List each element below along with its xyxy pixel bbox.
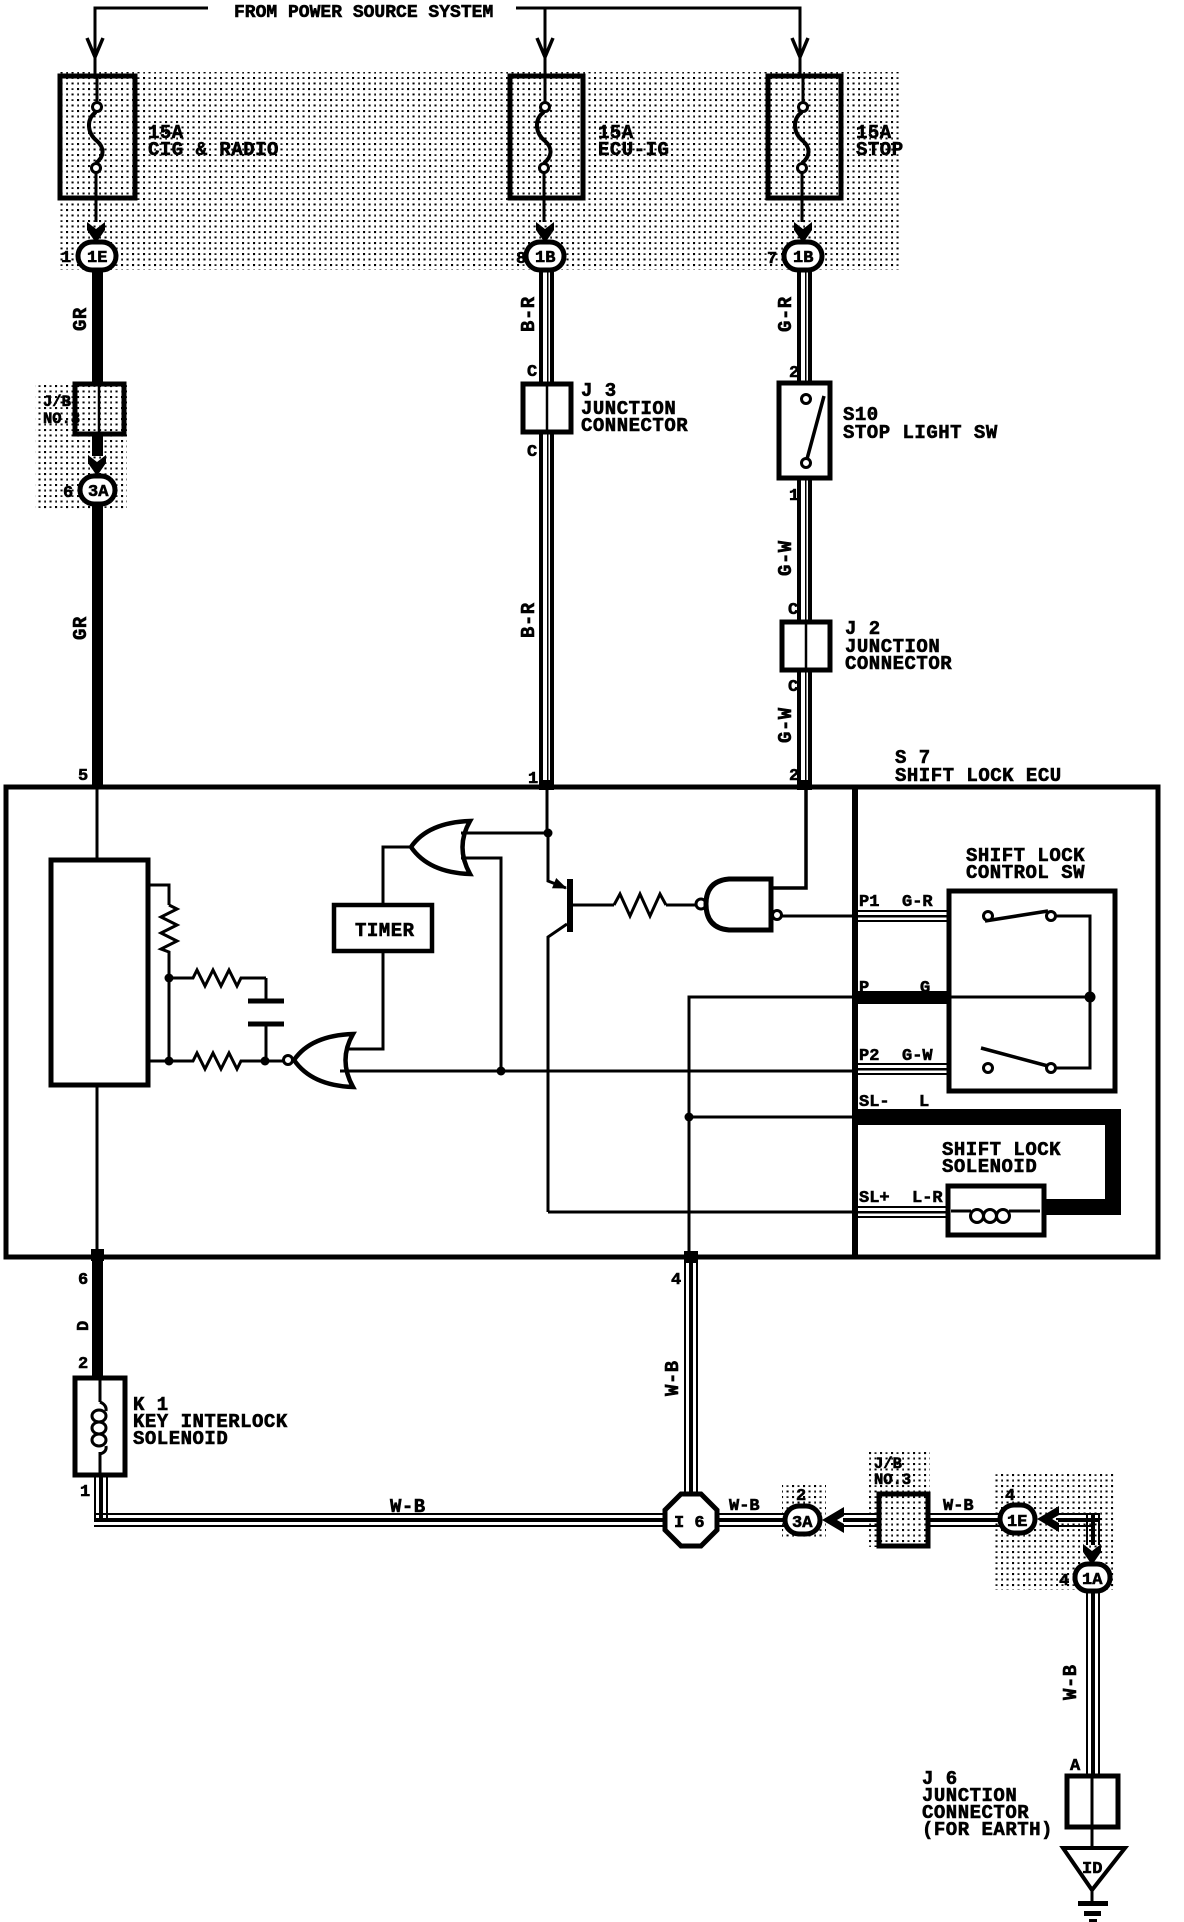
svg-text:ECU-IG: ECU-IG	[598, 139, 669, 161]
svg-text:W-B: W-B	[662, 1360, 684, 1396]
node dot G	[1085, 992, 1096, 1003]
svg-text:CONTROL SW: CONTROL SW	[966, 862, 1085, 884]
gray patch bottom right connectors	[995, 1473, 1115, 1590]
svg-text:C: C	[527, 363, 537, 382]
resistor R3 horizontal	[173, 1053, 262, 1069]
svg-text:GR: GR	[70, 616, 92, 640]
junction connector J3	[523, 384, 571, 432]
gray halftone band top	[58, 72, 901, 270]
transistor Q1 collector	[548, 924, 567, 1212]
internal block	[51, 860, 148, 1085]
transistor Q1 emitter arrow	[552, 878, 567, 889]
NAND lower input bubble	[773, 911, 782, 920]
connector oval 3A bottom	[785, 1506, 820, 1534]
svg-text:CONNECTOR: CONNECTOR	[845, 653, 952, 675]
resistor R1 vertical	[161, 905, 177, 975]
svg-text:C: C	[788, 678, 798, 697]
svg-text:SOLENOID: SOLENOID	[133, 1428, 228, 1450]
wire pin5 into block	[96, 789, 99, 862]
wire block to R3	[148, 1060, 169, 1063]
node dot F	[685, 1113, 694, 1122]
svg-text:C: C	[527, 443, 537, 462]
connector oval 3A	[80, 476, 115, 504]
wire B-R triple lower	[539, 432, 554, 789]
svg-text:6: 6	[63, 484, 73, 503]
svg-text:P1: P1	[859, 893, 879, 912]
fuse F1 15A CIG & RADIO	[60, 76, 135, 222]
svg-text:5: 5	[78, 767, 88, 786]
wire G-W triple upper	[797, 478, 812, 622]
junction block J/B No.3 bottom box	[879, 1494, 928, 1546]
svg-text:W-B: W-B	[390, 1496, 426, 1518]
wire P common	[949, 996, 1090, 999]
stop light switch S10	[779, 383, 830, 478]
wire dot to NOR bubble	[265, 1060, 283, 1063]
svg-text:B-R: B-R	[518, 602, 540, 638]
NOR gate U2 body	[294, 1034, 353, 1087]
OR gate U3 body	[411, 821, 470, 874]
svg-text:G-R: G-R	[775, 296, 797, 332]
wire OR input lower	[461, 858, 501, 1071]
svg-text:C: C	[788, 601, 798, 620]
arrow into connector 1B middle	[536, 222, 554, 243]
svg-text:ID: ID	[1082, 1860, 1102, 1879]
wire W-B 1A to J6	[1086, 1591, 1100, 1776]
NOR gate U2 bubble	[284, 1056, 293, 1065]
switch SW2 lower	[981, 1001, 1090, 1073]
svg-text:3A: 3A	[792, 1514, 813, 1533]
wire OR input upper to node	[461, 832, 548, 835]
svg-text:SHIFT LOCK ECU: SHIFT LOCK ECU	[895, 765, 1062, 787]
svg-text:B-R: B-R	[518, 296, 540, 332]
wire W-B J/B to 1E	[928, 1513, 1000, 1527]
arrow down into 1A	[1083, 1544, 1101, 1565]
wire P thick bar	[858, 991, 949, 1004]
wire R4 to NAND output	[666, 904, 695, 907]
svg-text:2: 2	[796, 1487, 806, 1506]
ECU divider	[852, 787, 858, 1257]
wire SL+ bundle	[858, 1206, 949, 1218]
wire W-B I6 to 3A	[717, 1513, 785, 1527]
svg-text:3A: 3A	[88, 483, 109, 502]
junction octagon I6	[665, 1494, 717, 1546]
svg-text:G-W: G-W	[775, 540, 797, 576]
svg-text:FROM POWER SOURCE SYSTEM: FROM POWER SOURCE SYSTEM	[234, 3, 493, 23]
transistor Q1 bar	[567, 879, 573, 932]
arrow left into 1E	[1037, 1506, 1059, 1532]
svg-text:2: 2	[78, 1355, 88, 1374]
gray patch J/B No.3 left	[35, 384, 127, 509]
junction connector J2	[782, 622, 830, 670]
gray patch 3A bottom	[782, 1483, 826, 1537]
wire SL- row internal	[689, 1116, 855, 1119]
wire below J/B	[92, 434, 103, 456]
svg-text:CONNECTOR: CONNECTOR	[581, 415, 688, 437]
wire TIMER top to OR output	[383, 847, 410, 905]
wire G-R triple	[797, 270, 812, 383]
svg-text:8: 8	[516, 250, 526, 269]
TIMER box	[334, 905, 432, 951]
solenoid coil L1	[951, 1210, 1040, 1223]
wire P2 row internal from NOR output	[340, 1070, 855, 1073]
wire GR thick upper	[92, 270, 103, 384]
wire GR thick pin6 to K1	[92, 1259, 103, 1378]
svg-text:1B: 1B	[535, 249, 555, 268]
junction block J/B No.3 left	[75, 384, 124, 434]
wire collector to SL+ row	[548, 1211, 855, 1214]
wire G-W triple lower	[797, 670, 812, 789]
svg-text:1A: 1A	[1082, 1571, 1103, 1590]
svg-text:1: 1	[80, 1483, 90, 1502]
svg-text:W-B: W-B	[729, 1497, 760, 1516]
svg-text:TIMER: TIMER	[355, 920, 415, 942]
node dot E	[497, 1067, 506, 1076]
wire J6 to ground	[1091, 1827, 1094, 1850]
arrowhead into fuse 2	[537, 38, 553, 57]
svg-text:NO.3: NO.3	[874, 1471, 911, 1489]
node dot B	[165, 1057, 174, 1066]
node dot C	[261, 1057, 270, 1066]
wire to capacitor	[265, 978, 268, 999]
svg-text:STOP LIGHT SW: STOP LIGHT SW	[843, 422, 998, 444]
wire block to R1	[148, 885, 169, 905]
svg-text:W-B: W-B	[943, 1497, 974, 1516]
wire: header bus line	[95, 8, 208, 60]
NAND gate U4 body	[706, 879, 771, 930]
svg-text:6: 6	[78, 1271, 88, 1290]
NAND gate U4 bubble	[696, 899, 706, 909]
wire: middle drop from bus	[544, 8, 547, 60]
svg-text:G-W: G-W	[775, 707, 797, 743]
junction connector J6	[1067, 1776, 1118, 1827]
svg-text:NO.3: NO.3	[43, 410, 80, 428]
ground symbol	[1078, 1890, 1108, 1922]
svg-text:1E: 1E	[87, 249, 107, 268]
svg-text:4: 4	[671, 1271, 681, 1290]
wire W-B 3A to J/B	[843, 1513, 879, 1527]
wire pin6 from block	[96, 1085, 99, 1257]
wire W-B vertical pin4 to I6	[684, 1259, 698, 1494]
wire TIMER to NOR input	[345, 951, 383, 1049]
fuse F3 15A STOP	[768, 76, 841, 222]
svg-text:1E: 1E	[1007, 1513, 1027, 1532]
wire SL- thick bar to solenoid	[858, 1109, 1121, 1215]
svg-text:L-R: L-R	[912, 1189, 943, 1208]
node dot D	[544, 829, 553, 838]
svg-text:G-R: G-R	[902, 893, 933, 912]
svg-text:4: 4	[1059, 1572, 1069, 1591]
wire NAND upper input from pin2	[771, 789, 806, 888]
connector oval 1A	[1075, 1564, 1110, 1591]
resistor R2 horizontal	[173, 970, 266, 986]
arrowhead into fuse 1	[87, 38, 103, 57]
wire W-B from K1 down	[94, 1475, 108, 1520]
wire vertical between dots	[168, 978, 171, 1061]
shift lock control switch box	[949, 891, 1115, 1091]
fuse F2 15A ECU-IG	[510, 76, 583, 222]
ECU box S7	[6, 787, 1158, 1257]
wire P row internal	[689, 997, 855, 1254]
svg-text:1B: 1B	[793, 249, 813, 268]
connector oval 1B right	[784, 242, 822, 270]
node dot A	[165, 974, 174, 983]
wire W-B horizontal to I6	[94, 1513, 665, 1527]
switch SW1 upper	[984, 911, 1091, 993]
svg-text:D: D	[75, 1321, 94, 1331]
wire crossing blocks at ECU border	[539, 780, 554, 790]
svg-text:J/B: J/B	[43, 393, 71, 411]
gray patch J/B No.3 bottom	[869, 1450, 930, 1547]
connector oval 1E	[78, 242, 116, 270]
svg-text:SOLENOID: SOLENOID	[942, 1156, 1037, 1178]
wire base to R4	[573, 904, 614, 907]
wire W-B corner to 1A	[1058, 1513, 1100, 1545]
ground triangle ID	[1063, 1848, 1125, 1890]
svg-text:STOP: STOP	[856, 139, 904, 161]
svg-text:GR: GR	[70, 307, 92, 331]
connector oval 1E bottom	[1000, 1505, 1035, 1533]
arrow into connector 1B right	[794, 222, 812, 243]
wire node to transistor emitter	[548, 833, 566, 888]
resistor R4	[614, 894, 666, 916]
svg-text:(FOR EARTH): (FOR EARTH)	[922, 1819, 1053, 1841]
svg-text:2: 2	[789, 364, 799, 383]
K1 coil	[92, 1380, 106, 1473]
svg-text:W-B: W-B	[1060, 1664, 1082, 1700]
key interlock solenoid K1 box	[75, 1378, 125, 1475]
wire pin1 down	[546, 789, 549, 833]
shift lock solenoid box	[948, 1186, 1044, 1235]
connector oval 1B middle	[526, 242, 564, 270]
wire GR thick lower	[92, 504, 103, 789]
arrowhead into fuse 3	[792, 38, 808, 57]
wire P1 bundle	[858, 910, 949, 922]
svg-text:A: A	[1070, 1757, 1081, 1776]
svg-text:1: 1	[61, 249, 71, 268]
svg-text:SL+: SL+	[859, 1189, 890, 1208]
svg-text:7: 7	[767, 250, 777, 269]
arrow into 3A	[88, 455, 106, 476]
wire NAND lower input to P1	[782, 915, 855, 918]
arrow into connector 1E	[87, 222, 105, 243]
wire P2 bundle	[858, 1063, 949, 1075]
capacitor C1	[248, 1001, 284, 1058]
arrow left into 3A	[822, 1507, 844, 1533]
wire B-R triple upper	[539, 270, 554, 384]
svg-text:CIG & RADIO: CIG & RADIO	[148, 139, 279, 161]
svg-text:I 6: I 6	[674, 1514, 705, 1533]
